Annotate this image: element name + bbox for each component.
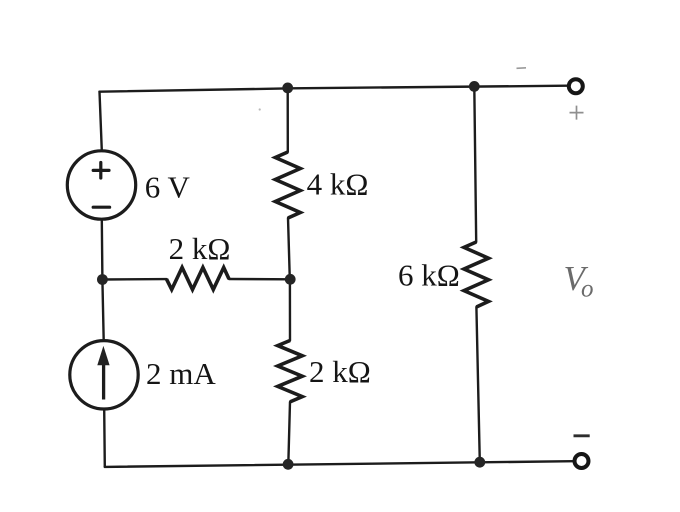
svg-text:2 mA: 2 mA (146, 356, 216, 391)
svg-text:2 kΩ: 2 kΩ (309, 354, 371, 389)
current source I1 circle (70, 341, 138, 409)
svg-text:6 kΩ: 6 kΩ (398, 258, 460, 293)
svg-text:2 kΩ: 2 kΩ (169, 231, 231, 266)
wire R1 right to node B (229, 278, 290, 281)
voltage source V1 circle (67, 151, 135, 219)
wire mid vertical between R2 and node B (288, 218, 290, 279)
label minus terminal (574, 434, 590, 437)
resistor R4 6k vertical (464, 242, 489, 307)
wire left below I1 (103, 409, 106, 467)
node top-middle (282, 83, 293, 94)
scan artifact dash (517, 67, 527, 70)
wire mid vertical between node B and R3 (289, 279, 292, 340)
resistor R3 2k vertical (278, 341, 303, 402)
wire top rail (100, 86, 567, 92)
svg-text:o: o (581, 276, 594, 303)
svg-text:6 V: 6 V (145, 170, 191, 205)
node A left-middle (97, 274, 108, 285)
svg-text:4 kΩ: 4 kΩ (307, 167, 369, 202)
node bottom-middle (283, 459, 294, 470)
resistor R2 4k vertical (275, 152, 300, 218)
label plus terminal (570, 106, 584, 120)
I1 arrow (102, 362, 105, 400)
wire left between V1 and node A (101, 219, 104, 279)
wire right vertical below R4 (476, 307, 479, 462)
node bottom-right (474, 457, 485, 468)
wire node A to R1 left (102, 278, 166, 281)
V1 plus sign (93, 163, 109, 179)
terminal bottom-right open (575, 454, 589, 468)
scan artifact speck (259, 108, 261, 110)
wire left between node A and I1 (102, 280, 103, 341)
wire mid vertical above R2 (287, 87, 289, 152)
wire bottom rail (105, 461, 573, 467)
node top-right (469, 81, 480, 92)
wire left vertical upper (100, 92, 102, 151)
V1 minus sign (93, 206, 109, 209)
terminal top-right open (569, 79, 583, 93)
wire right vertical above R4 (474, 86, 476, 242)
resistor R1 2k horizontal (167, 268, 230, 290)
node B middle (285, 274, 296, 285)
wire mid vertical below R3 (288, 402, 290, 465)
